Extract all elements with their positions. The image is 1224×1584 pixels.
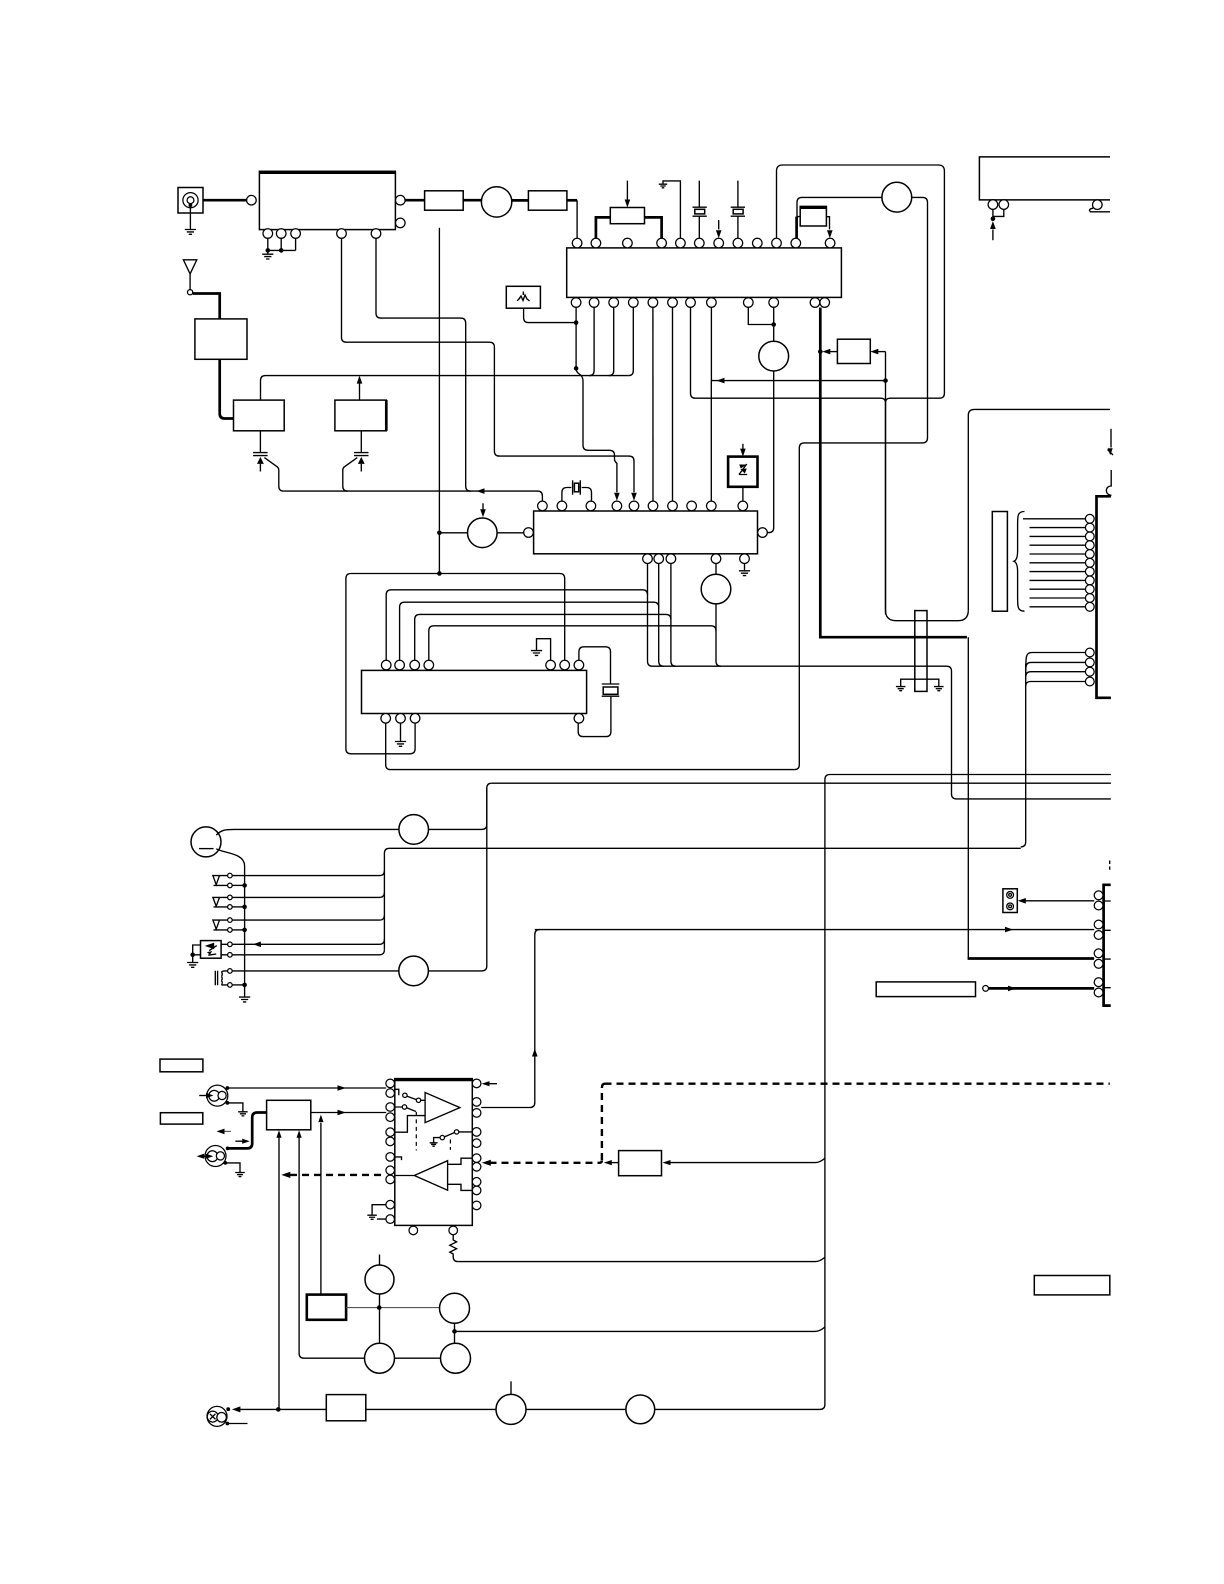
supply line from riser x824 bbox=[825, 775, 1111, 780]
head circle HC bbox=[365, 1343, 395, 1373]
arrow into U2 pin7 bbox=[718, 220, 720, 229]
PC1 left leads to ground bbox=[193, 945, 201, 962]
mini ground near pin5 bbox=[659, 184, 667, 188]
wire antenna to converter bbox=[193, 294, 220, 319]
wire U1 pin AFT down-right bbox=[342, 238, 635, 492]
ground near U4 bbox=[531, 651, 542, 656]
U5 output wire to riser bbox=[481, 1103, 535, 1108]
direction arrow into thick wire bbox=[235, 1140, 243, 1142]
dashed link S1 bbox=[415, 1112, 417, 1151]
wire B1 to timer circle bbox=[216, 829, 399, 835]
audio out jack J3 bbox=[197, 1146, 226, 1167]
wire HA down through dot bbox=[379, 1294, 381, 1343]
trap T2 bbox=[800, 206, 826, 226]
junction dot AGC2 on bus loop bbox=[437, 571, 442, 576]
wire U2 pin16 merge bus bbox=[628, 307, 633, 375]
wire E to F bbox=[526, 1408, 626, 1410]
audio in jack J2 bbox=[199, 1085, 228, 1106]
TC1 wire diagonal to AGC line bbox=[264, 458, 283, 492]
wire coax to tuner input bbox=[203, 199, 246, 202]
buffer circle E bbox=[496, 1394, 526, 1424]
crystal X2 bbox=[731, 181, 745, 239]
resistor R10 under U5 bbox=[450, 1235, 458, 1262]
resistor R1 bbox=[425, 191, 464, 210]
wire U2 pin19 down right to box corner bbox=[691, 307, 886, 402]
key line to CN1 riser bbox=[389, 847, 1020, 849]
ground under U3 pin b5 bbox=[744, 564, 746, 571]
junction dot at 885 bbox=[883, 378, 888, 383]
ground under U1 bbox=[262, 254, 273, 259]
audio head circle HB bbox=[440, 1293, 470, 1323]
A2 input step top bbox=[448, 1158, 473, 1164]
U3 left pin bbox=[524, 528, 534, 538]
loop wire U2 pin10 to oscillator circle bbox=[777, 165, 945, 403]
driver box8 bbox=[326, 1395, 366, 1421]
H bar with double ground bbox=[901, 679, 939, 686]
tuning pot P2 bbox=[468, 518, 498, 548]
CN2 pin pairs bbox=[1094, 891, 1103, 997]
main vertical bus x824 bbox=[820, 780, 825, 1410]
T2 right lead arrow to pin12 bbox=[826, 217, 829, 230]
filter box5 bbox=[837, 339, 870, 363]
head circle HD bbox=[441, 1343, 471, 1373]
pot P3 below U3 bbox=[715, 564, 717, 575]
pin U1 out1 bbox=[396, 195, 406, 205]
wire U2 pin5 step to mini ground bbox=[663, 181, 680, 238]
wire U2 pin14 merge bus bbox=[589, 307, 594, 375]
oscillator adjust circle bbox=[882, 182, 912, 212]
L1 top contact and wire to motor circle bbox=[232, 970, 399, 972]
big box frame left/top bbox=[968, 409, 1110, 610]
staircase line2 to U3 b2 bbox=[400, 602, 659, 660]
bias feed line to bus bbox=[455, 1327, 825, 1331]
opamp A1 bbox=[425, 1093, 460, 1123]
U5 right pins bbox=[472, 1079, 481, 1210]
buffer circle F bbox=[626, 1395, 655, 1424]
timer circle M1 bbox=[399, 815, 429, 845]
wire P2 left to vertical bbox=[439, 532, 467, 534]
AV jack pair box bbox=[1003, 889, 1017, 913]
wire pin13 jog to U3 bbox=[576, 368, 617, 492]
motor box7 bbox=[307, 1295, 346, 1320]
AFC bus line to converter boxes bbox=[261, 376, 629, 401]
staircase line3 to U3 b3 bbox=[415, 614, 671, 660]
staircase to A1 inverting bbox=[395, 1116, 425, 1133]
wire converter to box3 bbox=[220, 359, 234, 418]
erase head circle HA bbox=[365, 1265, 394, 1294]
long line y783 to right margin bbox=[492, 782, 1111, 784]
stub above E bbox=[510, 1381, 512, 1394]
junction dot on thick line bbox=[818, 349, 823, 354]
junction dot AGC2/P2 bbox=[437, 531, 442, 536]
wire U4 b2 to ground bbox=[400, 723, 402, 741]
vertical node wire 885 bbox=[885, 352, 887, 615]
motor circle M2 bbox=[399, 956, 429, 986]
timer coil L1 bbox=[215, 971, 227, 986]
TC2 wire diagonal to AGC line bbox=[343, 458, 358, 492]
box9 right lead from bus bbox=[670, 1158, 825, 1162]
wire Z1 to U3 pin bbox=[742, 487, 744, 501]
switch S1a bbox=[395, 1089, 425, 1100]
wire M1 right up riser bbox=[429, 824, 487, 829]
label box near CN2 bbox=[876, 982, 975, 997]
label box L2 bbox=[160, 1113, 202, 1124]
junction dot K1 supply bbox=[991, 216, 996, 221]
thick corner to lower connector bbox=[968, 957, 1094, 960]
trimmer capacitor TC2 bbox=[354, 431, 369, 472]
antenna terminal circle bbox=[188, 290, 193, 295]
wire R1 to G1 bbox=[463, 199, 481, 202]
wire AGC2 vertical end bbox=[438, 228, 440, 574]
wire U2 pin22 down to volume pot bbox=[773, 307, 775, 341]
staircase line4 to P3 bbox=[429, 626, 716, 661]
wire SW2 top row long bbox=[232, 892, 384, 897]
noise icon box bbox=[506, 286, 540, 308]
PC1 top contact and wire bbox=[221, 939, 384, 944]
wire P2 right to U3 left pin bbox=[497, 532, 524, 534]
pin tuner input bbox=[247, 195, 257, 205]
left arrow on AGC line bbox=[477, 488, 485, 494]
U2 thick audio line down bbox=[820, 308, 967, 638]
backup battery B1 bbox=[191, 827, 221, 857]
L1 bottom contact to bus bbox=[232, 984, 244, 986]
arrow into Z1 top bbox=[742, 444, 744, 449]
bus loop wire U4 bbox=[346, 574, 565, 754]
K1 pins bbox=[988, 200, 1102, 210]
zener box Z1 bbox=[728, 457, 757, 487]
chroma bus line right bbox=[653, 666, 1111, 799]
tuner box U1 bbox=[259, 171, 395, 229]
coil G1 bbox=[481, 187, 511, 217]
AGC amp box6 bbox=[267, 1100, 311, 1130]
converter coil box3 bbox=[234, 400, 285, 431]
wire G1 to R2 bbox=[512, 199, 529, 202]
stub arrow into U5 top right bbox=[490, 1083, 498, 1085]
T2 left lead thick to pin11 bbox=[795, 217, 798, 238]
arrow into U3 pin from AFT wire bbox=[631, 493, 637, 501]
U4 pin step to ground bbox=[537, 639, 551, 661]
antenna symbol bbox=[183, 260, 196, 290]
CN1 lower pin wires curl down bbox=[1021, 653, 1086, 847]
PC1 bottom contact and wire bbox=[221, 950, 384, 955]
wire terminal to CN2 pair4 bbox=[989, 987, 1095, 990]
label box L1 bbox=[160, 1059, 203, 1072]
wire U1 out1 to R1 bbox=[405, 199, 425, 202]
U1 bottom pins bbox=[263, 229, 381, 239]
trap coil T1 bbox=[610, 208, 644, 224]
floating arrow into pot P2 bbox=[482, 503, 484, 511]
resistor R2 bbox=[528, 191, 567, 210]
TC2 arrow bbox=[358, 457, 365, 464]
wire U1 gnd pins harness bbox=[268, 238, 296, 253]
opamp A2 bbox=[414, 1161, 447, 1191]
pin U1 out2 bbox=[396, 218, 406, 228]
key switch SW3 bbox=[213, 920, 228, 930]
junction dot noise/pin13 bbox=[574, 320, 579, 325]
bias riser into signal wire bbox=[320, 1123, 322, 1295]
wire J2 to U5 bbox=[226, 1086, 230, 1090]
wire oscillator right down bbox=[794, 197, 927, 769]
wire noise box to pin13 line bbox=[524, 308, 577, 322]
vertical after thick corner bbox=[967, 637, 969, 958]
wire R10 to bus x824 bbox=[458, 1257, 825, 1261]
U4 bottom pins bbox=[381, 714, 584, 724]
CN1 pins bbox=[1085, 514, 1094, 611]
converter coil box4 bbox=[335, 400, 386, 431]
small terminal circle bbox=[983, 986, 989, 992]
box6 bottom pin2 long wire bbox=[299, 1137, 364, 1359]
key switch SW1 bbox=[213, 876, 228, 886]
dashed REC line left bbox=[281, 1172, 290, 1178]
wire SW2 bottom to bus bbox=[232, 906, 244, 908]
wire U3 pin9 up to arrow line bbox=[710, 381, 712, 502]
wire U2 pin17 straight down to U3 bbox=[652, 307, 654, 501]
wire U2 pin13 down bbox=[575, 307, 577, 368]
upper connector CN1 bbox=[1097, 496, 1111, 698]
supply riser x486 bbox=[487, 783, 492, 824]
wire SW3 top row long bbox=[232, 915, 384, 920]
wire HC to HD bbox=[395, 1357, 441, 1359]
wire SW1 bottom to bus bbox=[232, 884, 244, 886]
A2 output to left pins bbox=[395, 1175, 415, 1177]
U2 bottom pins bbox=[571, 298, 829, 308]
crystal X4 loop bbox=[578, 647, 619, 737]
wire J3 sleeve to ground bbox=[225, 1163, 240, 1172]
U3 bottom pins bbox=[643, 554, 750, 564]
continuation dashes above CN2 bbox=[1109, 861, 1111, 870]
dashed PB line right bbox=[490, 1084, 1110, 1163]
brace for CN1 bus bbox=[1014, 512, 1025, 612]
wire U1 pin AGC down-right bbox=[376, 238, 471, 491]
wire U2 pin21 to pin22 join bbox=[748, 307, 773, 324]
trimmer capacitor TC1 bbox=[253, 431, 268, 472]
wire M2 right up riser bbox=[428, 788, 486, 971]
wire P3 down to bus bbox=[716, 604, 721, 666]
wire SW1 top row long bbox=[232, 871, 384, 876]
dashed link S2 bbox=[449, 1140, 451, 1150]
T1 left lead bbox=[596, 217, 610, 238]
T1 right lead bbox=[645, 217, 662, 238]
floating arrow out marker bbox=[224, 1130, 231, 1132]
CN1 pin wires bbox=[1023, 519, 1085, 607]
stub pin with tick bbox=[395, 1157, 402, 1160]
thick wire J3 to box6 bbox=[226, 1147, 230, 1151]
box9 left lead arrow bbox=[612, 1162, 619, 1164]
junction dot pin13 branch bbox=[574, 366, 579, 371]
wire U2 pin20 down to arrow line bbox=[710, 307, 712, 380]
U3 top pins bbox=[538, 501, 748, 511]
jumper tall rect bbox=[915, 611, 927, 692]
wire J4 sleeve stub bbox=[227, 1423, 247, 1425]
thick line CN2 pair3 bbox=[968, 958, 1094, 960]
K1 pin3 curved lead bbox=[1089, 208, 1110, 212]
open frame path around video section bbox=[886, 403, 969, 621]
CN1 lower pins bbox=[1085, 648, 1094, 686]
wire U2 pin18 straight down to U3 bbox=[672, 307, 674, 501]
horizontal line pin20 to node with left arrow bbox=[711, 380, 885, 382]
crystal X4 body bbox=[603, 687, 618, 694]
wire coax center to ground bbox=[189, 205, 191, 229]
output riser x534 with up arrow bbox=[535, 930, 540, 1103]
wire R2 to U2 pin1 bbox=[567, 199, 577, 202]
bus label tall rect bbox=[992, 512, 1007, 612]
crystal X1 bbox=[693, 181, 707, 239]
wire CN2 pair1 to AV jacks bbox=[1025, 900, 1094, 902]
bias osc box9 bbox=[619, 1151, 662, 1176]
U5 gnd step left bbox=[372, 1205, 386, 1219]
AGC line to U3 pin1 bbox=[284, 491, 543, 501]
wire U3 pin b2 down merge bus bbox=[659, 564, 664, 667]
coax antenna connector J1 bbox=[178, 188, 203, 214]
chroma IC U3 bbox=[534, 511, 758, 554]
clipped arrow mark near frame edge bbox=[1110, 429, 1112, 448]
IF/video IC U2 bbox=[567, 248, 842, 298]
wire P1 down to U3 right pin bbox=[767, 371, 773, 533]
U5 bottom pins bbox=[409, 1226, 458, 1235]
supply arrow up into K1 bbox=[992, 230, 994, 241]
wire box6 to U5 bbox=[311, 1112, 386, 1114]
wire U3 pin b3 down merge bus bbox=[671, 564, 676, 667]
dashed corner joints bbox=[600, 1084, 605, 1163]
wire HB down to dot and D bbox=[454, 1323, 456, 1342]
key switch SW2 bbox=[213, 897, 228, 907]
junction dot pin22 bbox=[771, 322, 776, 327]
monitor out line with arrow bbox=[535, 929, 1094, 931]
mid switch S2 bbox=[434, 1132, 473, 1143]
K1 supply join wires bbox=[993, 209, 1004, 218]
stub above HA bbox=[379, 1255, 381, 1266]
U2 top pins bbox=[572, 238, 835, 248]
deck label box bbox=[1034, 1276, 1110, 1295]
A2 input step bottom bbox=[448, 1184, 473, 1190]
junction dots harness bbox=[266, 248, 284, 253]
head amp IC U5 bbox=[395, 1079, 473, 1226]
arrow from box4 up into bus bbox=[359, 382, 361, 400]
long wire U4 b1 to right riser bbox=[386, 723, 795, 770]
TC1 arrow bbox=[257, 457, 264, 464]
switch S1b bbox=[395, 1107, 416, 1112]
wire box8 to buffer E bbox=[366, 1408, 496, 1410]
U3 right pin bbox=[758, 528, 768, 538]
box5 right lead arrow from node 885 bbox=[878, 351, 886, 353]
wire SW3 bottom to bus bbox=[232, 929, 244, 931]
wire hop into upper connector bbox=[1106, 470, 1111, 496]
box5 left lead arrow to thick line bbox=[828, 351, 837, 353]
volume pot circle P1 bbox=[759, 341, 789, 371]
ground at key bus bottom bbox=[239, 997, 250, 1002]
CN2 side ticks bbox=[1104, 901, 1111, 988]
wire oscillator left to T2 bbox=[797, 197, 882, 216]
video out jack J4 bbox=[207, 1406, 227, 1426]
wire F to bus corner bbox=[655, 1408, 820, 1410]
wire box7 to head circle HB bbox=[346, 1307, 440, 1309]
wire arrow into T1 top bbox=[626, 181, 628, 201]
converter box bbox=[195, 319, 247, 359]
crystal X3 bbox=[562, 480, 592, 501]
audio IC U4 bbox=[362, 670, 587, 713]
wire U2 pin15 merge bus bbox=[609, 307, 614, 375]
box6 bottom pin1 long wire bbox=[278, 1137, 280, 1410]
arrow into U3 pin4 bbox=[614, 493, 620, 501]
wire J2 sleeve to ground bbox=[226, 1103, 243, 1112]
staircase line1 to U3 b1 bbox=[386, 590, 647, 661]
wire B1 to key bus bbox=[216, 849, 244, 997]
wire U3 pin b1 down merge bus bbox=[648, 564, 653, 667]
U5 left pins bbox=[386, 1079, 395, 1223]
lower connector CN2 bbox=[1104, 885, 1111, 1006]
top right relay box K1 bbox=[979, 157, 1110, 200]
key matrix bus riser bbox=[384, 848, 389, 950]
ground under coax bbox=[185, 230, 196, 235]
wire J4 main with arrow bbox=[226, 1407, 230, 1411]
opto coupler PC1 bbox=[201, 941, 222, 959]
U4 top pins bbox=[381, 660, 583, 670]
